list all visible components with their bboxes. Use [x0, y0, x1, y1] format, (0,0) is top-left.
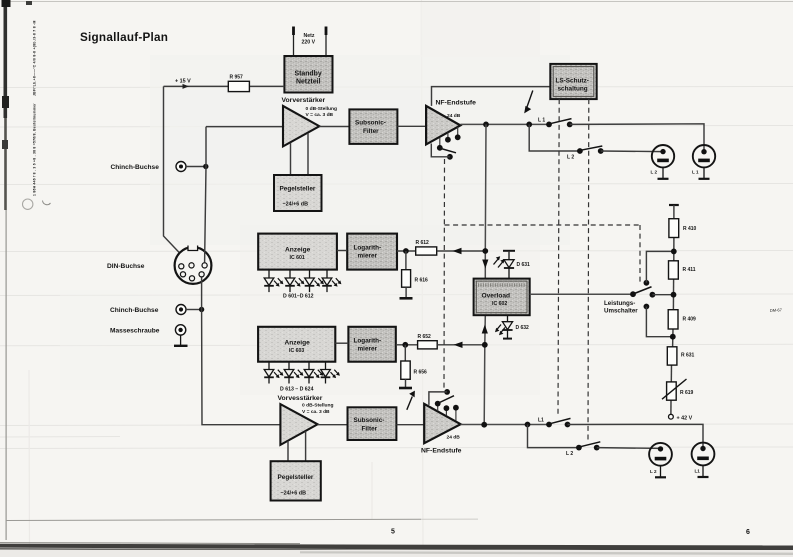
- wire selector bottom tap: [646, 307, 672, 337]
- svg-text:LS-Schutz-: LS-Schutz-: [556, 78, 589, 85]
- wire L1 feed lower: [568, 424, 704, 448]
- label Netz 220 V: [302, 33, 316, 46]
- wire overload to power switch: [530, 293, 633, 295]
- mains terminals Netz 220V: [292, 27, 327, 57]
- svg-text:V = ca. 3 dB: V = ca. 3 dB: [302, 409, 330, 415]
- arrow LS actuation: [527, 91, 533, 108]
- svg-text:0 dB-Stellung: 0 dB-Stellung: [302, 403, 334, 409]
- svg-text:L1: L1: [538, 418, 544, 424]
- wire L1 feed upper: [570, 124, 704, 152]
- wire selector top tap: [646, 251, 673, 282]
- hole punch circle: [23, 199, 33, 209]
- svg-text:Filter: Filter: [363, 128, 379, 135]
- rotated micro-text column: [33, 20, 37, 196]
- svg-text:24 dB: 24 dB: [447, 113, 461, 119]
- wire overload bus vertical: [484, 124, 487, 278]
- svg-text:R 619: R 619: [680, 390, 694, 396]
- svg-text:Anzeige: Anzeige: [285, 340, 311, 347]
- node junction R652 bus: [482, 342, 488, 348]
- ground R656: [399, 387, 412, 390]
- switch muting upper: [437, 145, 443, 151]
- wire DIN feed vertical: [164, 86, 192, 265]
- svg-text:L 1: L 1: [692, 170, 699, 175]
- wire bus to upper preamp: [206, 126, 283, 128]
- filter box Subsonic upper: [349, 109, 397, 143]
- display box Anzeige IC603: [258, 327, 335, 362]
- svg-text:R 411: R 411: [683, 267, 696, 273]
- wire amp output rail upper: [460, 123, 549, 125]
- svg-text:−24/+6 dB: −24/+6 dB: [281, 491, 307, 497]
- svg-text:Logarith-: Logarith-: [354, 338, 382, 345]
- svg-text:L 2: L 2: [650, 469, 657, 474]
- top edge scan line: [8, 1, 793, 3]
- wire subsonic to power amp lower: [396, 424, 424, 426]
- terminal top of divider: [669, 204, 679, 206]
- resistor R616: [402, 251, 428, 297]
- wire divider chain: [671, 205, 674, 414]
- svg-text:DM-67: DM-67: [770, 307, 783, 313]
- wire L2 branch lower: [528, 425, 579, 448]
- speaker L1 lower: [692, 443, 715, 477]
- svg-text:220 V: 220 V: [302, 40, 316, 46]
- arrow into overload top: [482, 260, 488, 269]
- svg-text:6: 6: [746, 529, 750, 536]
- wire preamp to subsonic upper: [319, 126, 349, 128]
- wire chinch upper to bus: [186, 166, 206, 168]
- svg-text:Subsonic-: Subsonic-: [355, 120, 386, 127]
- wire log to R652 node: [396, 344, 418, 346]
- svg-text:Chinch-Buchse: Chinch-Buchse: [110, 307, 159, 314]
- svg-text:Chinch-Buchse: Chinch-Buchse: [111, 164, 160, 171]
- resistor R957: [228, 75, 249, 92]
- switch muting lower: [435, 401, 441, 407]
- svg-text:Netzteil: Netzteil: [296, 79, 321, 86]
- wire preamp stubs to Pegelsteller lower: [288, 431, 306, 461]
- wire subsonic to power amp upper: [397, 125, 426, 127]
- svg-text:R 616: R 616: [415, 278, 429, 284]
- wire to LS protection: [432, 87, 551, 106]
- wire L2 feed lower: [597, 447, 661, 450]
- speaker L1 upper: [692, 145, 715, 179]
- node junction chinch upper: [203, 164, 208, 169]
- svg-text:5: 5: [391, 529, 395, 536]
- svg-text:Signallauf-Plan: Signallauf-Plan: [80, 31, 168, 44]
- svg-text:L 2: L 2: [651, 170, 658, 175]
- box Pegelsteller upper: [274, 175, 322, 211]
- label gain lower: [302, 403, 334, 415]
- node divider junction 2: [671, 292, 677, 298]
- svg-text:IC 603: IC 603: [289, 348, 304, 354]
- svg-text:−24/+6 dB: −24/+6 dB: [283, 202, 309, 208]
- node R652 left: [402, 342, 408, 348]
- svg-text:R 656: R 656: [414, 370, 428, 376]
- bottom dark scan band: [0, 543, 300, 544]
- svg-text:R 409: R 409: [683, 317, 697, 323]
- svg-text:NF-Endstufe: NF-Endstufe: [436, 100, 477, 107]
- node divider junction 1: [671, 249, 677, 255]
- node tap dots lower: [444, 405, 450, 411]
- resistor R652: [418, 334, 438, 349]
- wire audio input bus: [205, 127, 206, 263]
- svg-text:NF-Endstufe: NF-Endstufe: [421, 448, 462, 455]
- svg-text:L 2: L 2: [567, 154, 574, 160]
- svg-text:schaltung: schaltung: [558, 86, 588, 93]
- LED group D613-D624: [264, 362, 340, 384]
- node R612 left: [403, 248, 409, 254]
- svg-text:JBF/'Lb.+8——'C 4/0 8-8 +(8b./3: JBF/'Lb.+8——'C 4/0 8-8 +(8b./3-8 7 8 -M: [33, 20, 37, 96]
- svg-text:Leistungs-: Leistungs-: [604, 300, 635, 307]
- op-amp power amp lower: [424, 404, 460, 443]
- svg-text:+ 15 V: + 15 V: [175, 79, 191, 85]
- resistor R411: [669, 261, 696, 279]
- svg-text:L 2: L 2: [566, 451, 573, 457]
- left scan edge strip: [4, 0, 8, 118]
- wire R612 to bus with arrow: [437, 250, 486, 252]
- node divider junction 3: [670, 334, 676, 340]
- ground R616: [400, 297, 413, 300]
- box Logarithmierer upper: [347, 234, 397, 270]
- arrow into overload bottom: [482, 325, 488, 334]
- op-amp power amp upper: [426, 106, 460, 144]
- node tap dots upper: [445, 137, 451, 143]
- svg-text:Anzeige: Anzeige: [285, 247, 311, 254]
- dashed control links: [444, 99, 640, 440]
- op-amp preamp lower: [280, 404, 317, 445]
- wire preamp stubs to Pegelsteller: [291, 133, 309, 175]
- arrow clip indicator lower: [407, 397, 413, 410]
- wire R652 to bus with arrow: [437, 344, 485, 346]
- svg-text:mierer: mierer: [358, 253, 378, 260]
- resistor R631: [667, 347, 694, 365]
- svg-text:DIN-Buchse: DIN-Buchse: [107, 263, 145, 270]
- LED group D601-D612: [264, 270, 341, 293]
- resistor R410: [669, 219, 697, 238]
- overload box IC602: [474, 279, 530, 316]
- resistor R656: [401, 345, 427, 387]
- wire +15V rail with arrow: [164, 85, 285, 87]
- node junction chinch lower: [199, 307, 204, 312]
- wire L2 branch upper: [529, 124, 580, 151]
- light toner mottle patches: [60, 2, 570, 395]
- svg-text:Filter: Filter: [362, 426, 378, 433]
- faint vertical fold lines: [29, 0, 423, 557]
- svg-text:24 dB: 24 dB: [447, 435, 461, 441]
- node junction L2 branch upper: [526, 122, 532, 128]
- label Leistungs-Umschalter: [604, 300, 638, 315]
- svg-text:IC 602: IC 602: [492, 301, 507, 307]
- display box Anzeige IC601: [258, 234, 337, 270]
- svg-text:D 631: D 631: [517, 262, 531, 268]
- svg-text:Subsonic-: Subsonic-: [354, 417, 385, 424]
- svg-text:R 957: R 957: [230, 75, 244, 81]
- svg-text:R 631: R 631: [681, 353, 695, 359]
- filter box Subsonic lower: [348, 407, 397, 440]
- box Logarithmierer lower: [348, 327, 395, 362]
- hole punch arc: [43, 201, 51, 205]
- node junction amp out lower: [481, 422, 487, 428]
- wire selector mid tap: [652, 294, 673, 296]
- svg-text:Pegelsteller: Pegelsteller: [280, 186, 316, 193]
- svg-text:Logarith-: Logarith-: [354, 245, 382, 252]
- svg-text:Vorvesstärker: Vorvesstärker: [278, 395, 323, 402]
- wire log to R612 node: [397, 250, 416, 252]
- speaker L2 lower: [649, 443, 672, 477]
- switch power selector: [630, 280, 655, 310]
- wire amp sense taps upper: [440, 127, 458, 146]
- svg-text:V = ca. 3 dB: V = ca. 3 dB: [306, 112, 334, 118]
- connector ground screw: [174, 325, 188, 346]
- terminal +42V: [669, 414, 674, 419]
- connector chinch upper: [176, 162, 186, 172]
- protection box LS-Schutzschaltung: [550, 64, 596, 99]
- svg-text:R 612: R 612: [416, 240, 430, 246]
- svg-text:Netz: Netz: [304, 33, 315, 39]
- svg-text:Pegelsteller: Pegelsteller: [278, 474, 314, 481]
- svg-text:D 632: D 632: [516, 325, 530, 331]
- wire L2 feed upper: [601, 150, 663, 153]
- connector DIN socket: [175, 245, 212, 284]
- svg-text:Overload: Overload: [482, 293, 511, 300]
- wire chinch lower to bus: [186, 309, 202, 311]
- resistor R409: [668, 310, 696, 329]
- wire audio bus lower: [202, 278, 281, 425]
- svg-text:Vorverstärker: Vorverstärker: [282, 97, 326, 104]
- label gain upper: [306, 106, 338, 118]
- svg-text:Umschalter: Umschalter: [604, 308, 638, 315]
- speaker L2 upper: [651, 145, 675, 179]
- wire anzeige to log lower: [335, 342, 348, 344]
- box Pegelsteller lower: [271, 461, 321, 500]
- svg-text:R 652: R 652: [418, 334, 432, 340]
- node junction amp out upper: [483, 122, 489, 128]
- svg-text:0 dB-Stellung: 0 dB-Stellung: [306, 106, 338, 112]
- node junction R612 bus: [482, 248, 488, 254]
- resistor R619 variable: [662, 379, 694, 400]
- resistor R612: [416, 240, 437, 255]
- svg-text:D 601–D 612: D 601–D 612: [283, 294, 314, 300]
- wire amp sense taps lower: [438, 405, 456, 421]
- op-amp preamp upper: [283, 106, 319, 146]
- svg-text:D 613 – D 624: D 613 – D 624: [280, 387, 314, 393]
- wire anzeige to log upper: [337, 250, 347, 252]
- LED D631: [494, 251, 531, 279]
- svg-text:1 86H 446 f 8 . 3 6 +8 . 38 8: 1 86H 446 f 8 . 3 6 +8 . 38 8 =576/8. Be…: [33, 103, 37, 196]
- bottom page rule: [6, 519, 421, 520]
- wire preamp to subsonic lower: [318, 424, 348, 426]
- svg-text:R 410: R 410: [683, 226, 697, 232]
- svg-text:Masseschraube: Masseschraube: [110, 328, 160, 335]
- node junction L2 branch lower: [525, 422, 531, 428]
- svg-text:L1: L1: [695, 469, 701, 474]
- power supply U: Standby Netzteil: [284, 56, 332, 93]
- svg-text:IC 601: IC 601: [290, 255, 305, 261]
- svg-text:Standby: Standby: [295, 71, 322, 78]
- connector chinch lower: [176, 305, 186, 315]
- LED D632: [495, 315, 529, 338]
- wire amp output rail lower: [461, 424, 549, 426]
- svg-text:+ 42 V: + 42 V: [677, 416, 693, 422]
- svg-text:L 1: L 1: [538, 118, 545, 124]
- svg-text:mierer: mierer: [358, 346, 378, 353]
- faint horizontal scan streaks: [0, 87, 793, 449]
